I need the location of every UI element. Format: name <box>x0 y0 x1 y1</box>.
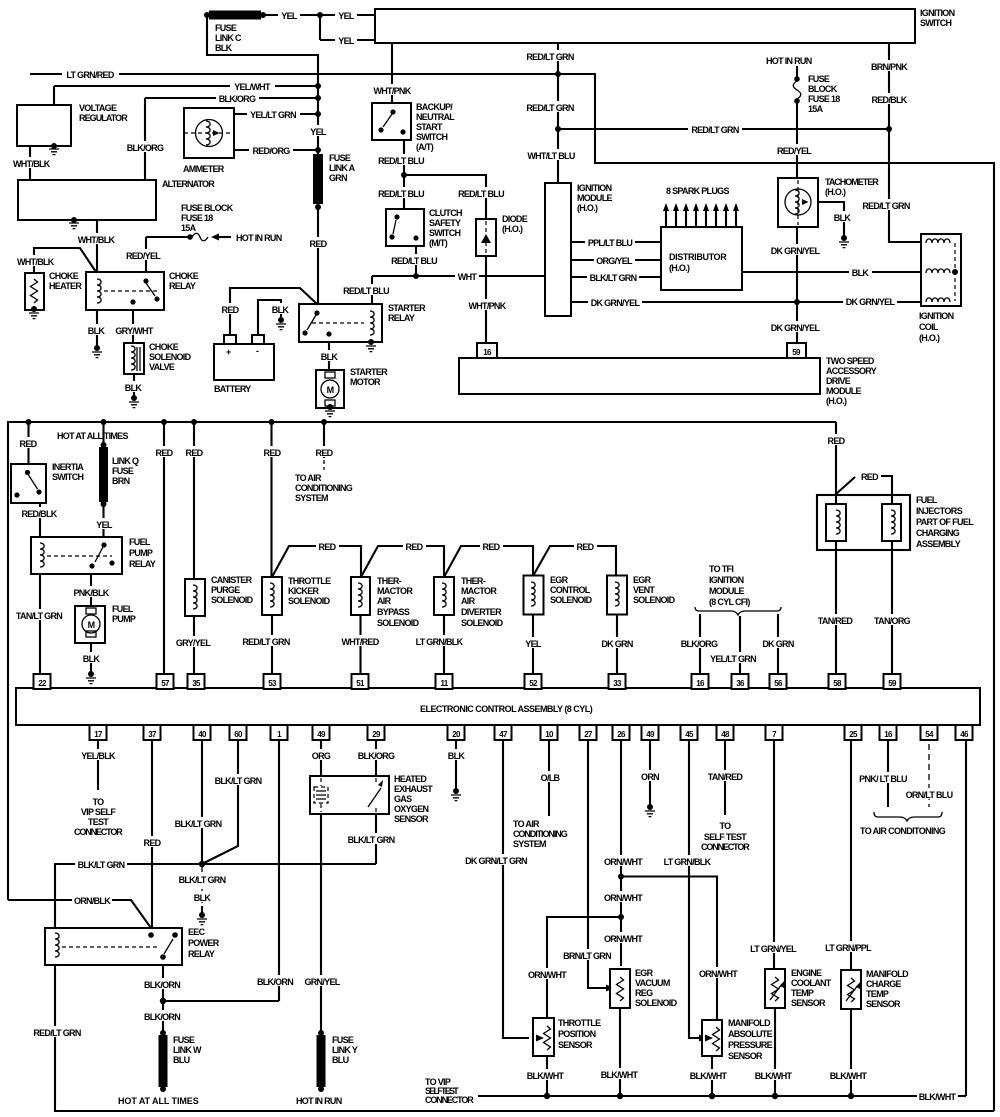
svg-text:11: 11 <box>440 679 448 688</box>
svg-text:HEATED: HEATED <box>394 774 427 784</box>
svg-text:56: 56 <box>774 679 783 688</box>
svg-text:TO: TO <box>720 821 732 831</box>
svg-text:LINK C: LINK C <box>215 33 242 43</box>
svg-text:MANIFOLD: MANIFOLD <box>728 1018 771 1028</box>
svg-text:ORN/WHT: ORN/WHT <box>604 893 643 903</box>
svg-text:LT GRN/BLK: LT GRN/BLK <box>416 637 464 647</box>
pin 33 (ECA top) <box>609 674 626 689</box>
svg-text:51: 51 <box>356 679 365 688</box>
svg-text:22: 22 <box>38 679 47 688</box>
starter motor <box>316 367 388 417</box>
svg-text:RED: RED <box>316 448 334 458</box>
pin 49 (ECA bottom) <box>313 725 330 740</box>
clutch safety switch <box>386 208 462 248</box>
svg-text:BLK: BLK <box>83 654 101 664</box>
svg-text:SWITCH: SWITCH <box>52 472 83 482</box>
svg-text:OXYGEN: OXYGEN <box>394 804 429 814</box>
svg-text:SENSOR: SENSOR <box>728 1051 763 1061</box>
svg-text:RED: RED <box>828 436 846 446</box>
svg-text:BLK: BLK <box>194 893 212 903</box>
svg-text:TO AIR: TO AIR <box>295 473 322 483</box>
svg-text:GRY/WHT: GRY/WHT <box>115 326 153 336</box>
svg-text:PNK/ LT BLU: PNK/ LT BLU <box>859 774 907 784</box>
svg-text:YEL: YEL <box>525 639 542 649</box>
svg-text:(H.O.): (H.O.) <box>825 187 846 197</box>
svg-text:PNK/BLK: PNK/BLK <box>73 588 109 598</box>
svg-text:YEL: YEL <box>281 11 298 21</box>
svg-text:MOTOR: MOTOR <box>350 377 381 387</box>
wire BLK/ORN pin 1 <box>255 740 295 1001</box>
diode <box>476 214 528 256</box>
svg-text:RED/BLK: RED/BLK <box>21 509 57 519</box>
brace to air conditioning <box>860 812 946 836</box>
svg-text:MACTOR: MACTOR <box>461 586 497 596</box>
fuse block fuse 18 (right) <box>766 56 840 114</box>
wire YEL/WHT <box>54 86 318 105</box>
pin 27 (ECA bottom) <box>580 725 597 740</box>
electronic control assembly <box>16 688 980 725</box>
svg-text:CHARGING: CHARGING <box>916 528 960 538</box>
svg-text:40: 40 <box>198 730 207 739</box>
wire RED fuse link A to starter relay <box>305 207 331 304</box>
svg-text:RED/LT GRN: RED/LT GRN <box>691 125 739 135</box>
svg-text:MODULE: MODULE <box>826 386 861 396</box>
svg-text:(A/T): (A/T) <box>416 142 434 152</box>
svg-text:LT GRN/PPL: LT GRN/PPL <box>825 943 872 953</box>
svg-text:LINK A: LINK A <box>329 163 356 173</box>
wire BLK/LT GRN horizontal <box>55 858 376 928</box>
svg-text:POWER: POWER <box>188 938 220 948</box>
pin 52 (ECA top) <box>525 674 542 689</box>
EGR vacuum reg solenoid <box>610 968 678 1008</box>
svg-text:SOLENOID: SOLENOID <box>633 595 676 605</box>
svg-text:29: 29 <box>372 730 381 739</box>
wire DK GRN to pin 56 <box>759 614 797 674</box>
two speed accessory drive module <box>459 356 877 406</box>
pin 58 (ECA top) <box>829 674 846 689</box>
wire RED to canister purge solenoid <box>183 422 206 579</box>
wire BLK distributor to coil <box>742 266 921 278</box>
svg-text:BLK: BLK <box>125 383 143 393</box>
ignition switch <box>375 8 955 43</box>
pin 53 (ECA top) <box>264 674 281 689</box>
svg-text:LINK W: LINK W <box>173 1045 202 1055</box>
svg-text:ENGINE: ENGINE <box>791 968 822 978</box>
wire RED/LT GRN ignition switch down <box>523 43 579 183</box>
svg-text:HOT IN RUN: HOT IN RUN <box>236 233 282 243</box>
svg-text:COIL: COIL <box>919 322 939 332</box>
svg-text:PUMP: PUMP <box>112 614 136 624</box>
canister purge solenoid <box>185 575 254 616</box>
svg-text:ORN/WHT: ORN/WHT <box>528 970 567 980</box>
svg-text:RED/YEL: RED/YEL <box>777 146 812 156</box>
svg-text:26: 26 <box>617 730 626 739</box>
wire YEL to pin 52 <box>522 615 544 675</box>
svg-text:MODULE: MODULE <box>577 193 612 203</box>
wire BLK/ORN relay output <box>142 965 182 1033</box>
svg-text:20: 20 <box>452 730 461 739</box>
wire DK GRN/YEL tach down to pin 59 <box>768 227 822 344</box>
svg-text:ORG: ORG <box>312 751 331 761</box>
pin 47 (ECA bottom) <box>495 725 512 740</box>
svg-text:BLK/WHT: BLK/WHT <box>601 1070 639 1080</box>
svg-text:BLK: BLK <box>272 305 290 315</box>
svg-text:IGNITION: IGNITION <box>920 8 955 18</box>
svg-text:BLK/LT GRN: BLK/LT GRN <box>215 776 262 786</box>
svg-text:SWITCH: SWITCH <box>429 228 460 238</box>
pin 51 (ECA top) <box>352 674 369 689</box>
svg-text:25: 25 <box>849 730 858 739</box>
svg-text:BRN: BRN <box>112 476 130 486</box>
svg-text:YEL: YEL <box>96 520 113 530</box>
svg-text:SWITCH: SWITCH <box>920 18 951 28</box>
wire BLK/ORG pin 29 to EGO sensor <box>356 740 396 776</box>
svg-text:RED: RED <box>483 542 501 552</box>
svg-text:+: + <box>226 347 231 357</box>
svg-text:MACTOR: MACTOR <box>377 586 413 596</box>
svg-text:49: 49 <box>317 730 326 739</box>
wire RED to throttle kicker <box>261 422 284 577</box>
svg-text:CHOKE: CHOKE <box>49 271 79 281</box>
8 spark plugs arrows <box>663 186 739 227</box>
svg-text:CHARGE: CHARGE <box>866 979 901 989</box>
throttle kicker solenoid <box>262 576 331 615</box>
svg-text:PUMP: PUMP <box>129 548 153 558</box>
svg-text:(H.O.): (H.O.) <box>919 333 940 343</box>
svg-text:INERTIA: INERTIA <box>52 462 84 472</box>
svg-text:ALTERNATOR: ALTERNATOR <box>162 179 215 189</box>
svg-text:WHT: WHT <box>458 272 478 282</box>
svg-text:YEL: YEL <box>338 36 355 46</box>
svg-text:58: 58 <box>833 679 842 688</box>
svg-text:BLK/WHT: BLK/WHT <box>830 1071 868 1081</box>
svg-text:BLK/ORG: BLK/ORG <box>127 143 164 153</box>
svg-text:BLK/ORN: BLK/ORN <box>257 977 293 987</box>
svg-text:YEL/LT GRN: YEL/LT GRN <box>710 654 756 664</box>
svg-text:AMMETER: AMMETER <box>183 164 225 174</box>
svg-text:SOLENOID: SOLENOID <box>211 595 254 605</box>
wire LT GRN/RED label <box>62 68 119 80</box>
wire LT GRN/BLK to pin 11 <box>413 615 465 674</box>
svg-text:SOLENOID: SOLENOID <box>635 998 678 1008</box>
svg-text:FUSE 18: FUSE 18 <box>808 94 840 104</box>
svg-text:KICKER: KICKER <box>288 586 320 596</box>
svg-text:27: 27 <box>584 730 593 739</box>
svg-text:ASSEMBLY: ASSEMBLY <box>916 539 961 549</box>
svg-text:EEC: EEC <box>188 927 206 937</box>
wire BLK/LT GRN <box>571 271 661 283</box>
svg-text:ORN/WHT: ORN/WHT <box>604 857 643 867</box>
svg-text:WHT/BLK: WHT/BLK <box>13 159 51 169</box>
pin 20 (ECA bottom) <box>448 725 465 740</box>
svg-text:PURGE: PURGE <box>211 585 240 595</box>
wire DK GRN/YEL to ignition coil bottom <box>797 295 921 307</box>
svg-text:BLK/ORG: BLK/ORG <box>681 639 718 649</box>
pin 35 (ECA top) <box>188 674 205 689</box>
EEC power relay <box>45 927 220 965</box>
wire PNK/LT BLU pin 16b <box>857 740 909 807</box>
svg-text:VOLTAGE: VOLTAGE <box>79 103 117 113</box>
svg-text:BLK/LT GRN: BLK/LT GRN <box>590 273 637 283</box>
wire ORG pin 49 to EGO sensor <box>310 740 333 776</box>
svg-text:SYSTEM: SYSTEM <box>513 839 546 849</box>
svg-text:REGULATOR: REGULATOR <box>79 113 128 123</box>
svg-text:37: 37 <box>148 730 157 739</box>
svg-text:BLK: BLK <box>834 213 852 223</box>
wire and fuse link Q <box>57 422 139 537</box>
svg-text:TO AIR CONDITONING: TO AIR CONDITONING <box>860 826 946 836</box>
svg-text:DRIVE: DRIVE <box>826 376 851 386</box>
voltage regulator U1 <box>17 103 128 155</box>
svg-text:SENSOR: SENSOR <box>558 1040 593 1050</box>
choke solenoid valve <box>124 342 192 374</box>
svg-text:59: 59 <box>888 679 897 688</box>
ignition coil (H.O.) <box>919 234 961 343</box>
wire PPL/LT BLU module to distributor <box>571 236 661 248</box>
svg-text:VENT: VENT <box>633 585 655 595</box>
svg-text:ORN/BLK: ORN/BLK <box>74 896 111 906</box>
svg-text:IGNITION: IGNITION <box>577 183 612 193</box>
svg-text:THROTTLE: THROTTLE <box>558 1018 601 1028</box>
svg-text:LINK Y: LINK Y <box>332 1045 358 1055</box>
svg-text:45: 45 <box>685 730 694 739</box>
wire RED/LT GRN horizontal to BRN/PNK vertical <box>558 123 888 135</box>
wire BLK/ORN junction to pin 1 line <box>163 1000 279 1002</box>
wire RED main hot bus <box>8 419 836 900</box>
wire BLK choke solenoid ground <box>122 374 145 408</box>
svg-text:36: 36 <box>736 679 745 688</box>
svg-text:16: 16 <box>696 679 705 688</box>
thermactor air diverter solenoid <box>434 576 504 628</box>
svg-text:RED: RED <box>20 439 38 449</box>
svg-text:DK GRN/YEL: DK GRN/YEL <box>771 246 821 256</box>
svg-text:59: 59 <box>792 348 801 357</box>
wire GRY/YEL canister to pin 35 <box>173 616 214 674</box>
wire RED/LT BLU backup switch down <box>378 140 505 219</box>
wire RED/BLK inertia to fuel pump relay <box>19 503 59 537</box>
svg-text:HOT IN RUN: HOT IN RUN <box>296 1096 342 1106</box>
svg-text:BLK/WHT: BLK/WHT <box>755 1071 793 1081</box>
svg-text:DIVERTER: DIVERTER <box>461 607 502 617</box>
svg-text:SOLENOID: SOLENOID <box>550 595 593 605</box>
pin 60 (ECA bottom) <box>230 725 247 740</box>
svg-text:BLK/ORN: BLK/ORN <box>144 1012 180 1022</box>
svg-text:GRN: GRN <box>329 173 347 183</box>
svg-text:WHT/LT BLU: WHT/LT BLU <box>527 151 575 161</box>
svg-text:BRN/PNK: BRN/PNK <box>871 62 908 72</box>
wire TAN/RED pin 48 to self test <box>701 740 750 852</box>
svg-text:YEL: YEL <box>338 11 355 21</box>
svg-text:RED/LT GRN: RED/LT GRN <box>33 1028 81 1038</box>
svg-text:33: 33 <box>613 679 622 688</box>
wire YEL fuse link C to ignition switch <box>263 12 375 40</box>
svg-text:BRN/LT GRN: BRN/LT GRN <box>563 951 611 961</box>
svg-text:CHOKE: CHOKE <box>149 342 179 352</box>
wire YEL/BLK pin 17 to self test <box>74 740 123 837</box>
wire RED to inertia switch <box>17 422 40 464</box>
pin 36 (ECA top) <box>732 674 749 689</box>
wire DK GRN to pin 33 <box>598 615 636 675</box>
fuel pump relay <box>31 537 156 574</box>
svg-text:WHT/RED: WHT/RED <box>341 637 379 647</box>
svg-text:TAN/RED: TAN/RED <box>818 616 854 626</box>
svg-text:RED: RED <box>156 448 174 458</box>
wire BLK fuse link C down to fuse link A <box>207 15 318 154</box>
svg-text:BATTERY: BATTERY <box>214 384 251 394</box>
svg-text:52: 52 <box>529 679 538 688</box>
pin 1 (ECA bottom) <box>271 725 288 740</box>
svg-text:WHT/BLK: WHT/BLK <box>78 235 116 245</box>
svg-text:10: 10 <box>545 730 554 739</box>
svg-text:RED: RED <box>319 542 337 552</box>
svg-text:RED: RED <box>577 542 595 552</box>
svg-text:ACCESSORY: ACCESSORY <box>826 366 877 376</box>
svg-text:RED/LT GRN: RED/LT GRN <box>526 103 574 113</box>
wire PNK/BLK relay to fuel pump <box>71 574 111 606</box>
ammeter M1 <box>183 108 234 174</box>
svg-text:BLOCK: BLOCK <box>808 84 838 94</box>
svg-text:RED: RED <box>144 838 162 848</box>
pin 56 (ECA top) <box>770 674 787 689</box>
svg-text:ORN/LT BLU: ORN/LT BLU <box>906 790 953 800</box>
fuel injector 1 <box>826 504 846 541</box>
svg-text:FUSE: FUSE <box>329 153 351 163</box>
pin 57 (ECA top) <box>157 674 174 689</box>
svg-text:SAFETY: SAFETY <box>429 218 461 228</box>
svg-text:RED/ORG: RED/ORG <box>252 146 290 156</box>
svg-text:46: 46 <box>960 730 969 739</box>
wire BLK/WHT ground bus <box>425 1077 966 1105</box>
svg-text:RED/LT BLU: RED/LT BLU <box>378 189 424 199</box>
svg-text:SYSTEM: SYSTEM <box>295 493 328 503</box>
svg-text:FUEL: FUEL <box>112 604 134 614</box>
svg-text:STARTER: STARTER <box>388 303 426 313</box>
svg-text:ORN/WHT: ORN/WHT <box>699 969 738 979</box>
svg-text:FUSE: FUSE <box>173 1035 195 1045</box>
svg-text:35: 35 <box>192 679 201 688</box>
wire ORN pin 49b ground <box>639 740 662 817</box>
wire TAN/LT GRN relay to pin 22 <box>14 574 65 674</box>
svg-text:RED/LT BLU: RED/LT BLU <box>343 286 389 296</box>
svg-text:LINK Q: LINK Q <box>112 456 139 466</box>
svg-text:LT GRN/RED: LT GRN/RED <box>66 70 115 80</box>
wire TAN/ORG injector to pin 59 <box>871 541 913 674</box>
wire RED to pin 57 <box>153 422 176 674</box>
TFI ignition module note and brace <box>695 564 781 615</box>
pin 26 (ECA bottom) <box>613 725 630 740</box>
pin 54 (ECA bottom) <box>921 725 938 740</box>
svg-text:15A: 15A <box>181 223 197 233</box>
svg-text:CLUTCH: CLUTCH <box>429 208 462 218</box>
svg-text:BYPASS: BYPASS <box>377 607 410 617</box>
svg-text:O/LB: O/LB <box>541 773 561 783</box>
svg-text:RED: RED <box>310 239 328 249</box>
svg-text:(H.O.): (H.O.) <box>502 224 523 234</box>
fuel injector 2 <box>882 504 901 541</box>
svg-text:ORG/YEL: ORG/YEL <box>596 256 633 266</box>
svg-text:M: M <box>88 620 95 630</box>
svg-text:THER-: THER- <box>377 576 402 586</box>
svg-text:TACHOMETER: TACHOMETER <box>825 177 879 187</box>
wire YEL/LT GRN to pin 36 <box>707 616 760 674</box>
wire LT GRN/YEL pin 7 to coolant sensor <box>747 740 800 969</box>
svg-text:SWITCH: SWITCH <box>416 132 447 142</box>
svg-text:GRY/YEL: GRY/YEL <box>176 638 211 648</box>
svg-text:CANISTER: CANISTER <box>211 575 253 585</box>
svg-text:AIR: AIR <box>377 596 392 606</box>
svg-text:YEL/WHT: YEL/WHT <box>234 82 271 92</box>
wire ORN/WHT pin 26 reference chain <box>603 740 644 966</box>
wire ORN/BLK to EEC relay <box>8 894 151 928</box>
svg-text:DK GRN/YEL: DK GRN/YEL <box>591 298 641 308</box>
wire WHT/BLK alternator to choke relay <box>76 220 117 272</box>
svg-text:IGNITION: IGNITION <box>709 575 744 585</box>
manifold absolute pressure sensor <box>702 1018 773 1061</box>
svg-text:(M/T): (M/T) <box>429 238 448 248</box>
svg-text:HOT AT ALL TIMES: HOT AT ALL TIMES <box>57 431 128 441</box>
pin 40 (ECA bottom) <box>194 725 211 740</box>
battery <box>214 335 274 394</box>
heated exhaust gas oxygen sensor <box>310 774 433 824</box>
svg-text:RED/YEL: RED/YEL <box>126 251 161 261</box>
wire GRY/WHT <box>113 310 155 343</box>
distributor (H.O.) <box>661 227 742 290</box>
wire RED/ORG label <box>249 144 293 156</box>
wire BRN/PNK ignition switch to coil <box>860 43 921 242</box>
svg-text:THER-: THER- <box>461 576 486 586</box>
svg-text:TEMP: TEMP <box>866 989 889 999</box>
svg-text:FUSE 18: FUSE 18 <box>181 213 213 223</box>
svg-text:BLK: BLK <box>88 326 106 336</box>
wire ORN/WHT branch to MAP sensor <box>621 877 739 1021</box>
wire YEL/WHT label <box>230 80 275 92</box>
fuse link W <box>118 1030 202 1106</box>
svg-text:LT GRN/BLK: LT GRN/BLK <box>664 857 712 867</box>
svg-text:TAN/RED: TAN/RED <box>708 772 744 782</box>
svg-text:RED/BLK: RED/BLK <box>871 95 907 105</box>
svg-text:ORN/WHT: ORN/WHT <box>604 934 643 944</box>
wire BLK/WHT pin 46 down right side <box>965 740 967 1096</box>
svg-text:DIODE: DIODE <box>502 214 528 224</box>
svg-text:BLK: BLK <box>215 43 233 53</box>
svg-text:CONDITIONING: CONDITIONING <box>295 483 353 493</box>
pin 25 (ECA bottom) <box>845 725 862 740</box>
pin 16 (ECA bottom) <box>880 725 897 740</box>
svg-text:DK GRN/YEL: DK GRN/YEL <box>771 323 821 333</box>
svg-text:TAN/LT GRN: TAN/LT GRN <box>16 611 62 621</box>
svg-text:HEATER: HEATER <box>49 281 82 291</box>
wire RED/LT BLU clutch to WHT line <box>391 246 438 276</box>
svg-text:VIP SELF: VIP SELF <box>81 807 116 817</box>
wire BLK/WHT EGR vac ground <box>599 1008 640 1096</box>
wire BLK/WHT TPS ground <box>525 1056 566 1096</box>
svg-text:8 SPARK PLUGS: 8 SPARK PLUGS <box>666 186 729 196</box>
wire RED/LT GRN to pin 53 <box>239 615 293 674</box>
svg-text:(H.O.): (H.O.) <box>826 396 847 406</box>
svg-text:RELAY: RELAY <box>129 559 156 569</box>
fuel pump <box>75 604 136 643</box>
svg-text:49: 49 <box>646 730 655 739</box>
svg-text:16: 16 <box>483 348 492 357</box>
svg-text:RED/LT GRN: RED/LT GRN <box>242 637 290 647</box>
svg-text:NEUTRAL: NEUTRAL <box>416 112 455 122</box>
svg-text:RED/LT GRN: RED/LT GRN <box>862 201 910 211</box>
svg-text:BLU: BLU <box>173 1055 190 1065</box>
svg-text:17: 17 <box>94 730 103 739</box>
wire BLK pin 20 ground <box>445 740 468 801</box>
svg-text:SOLENOID: SOLENOID <box>149 352 192 362</box>
wire RED injector 2 branch <box>836 472 892 504</box>
